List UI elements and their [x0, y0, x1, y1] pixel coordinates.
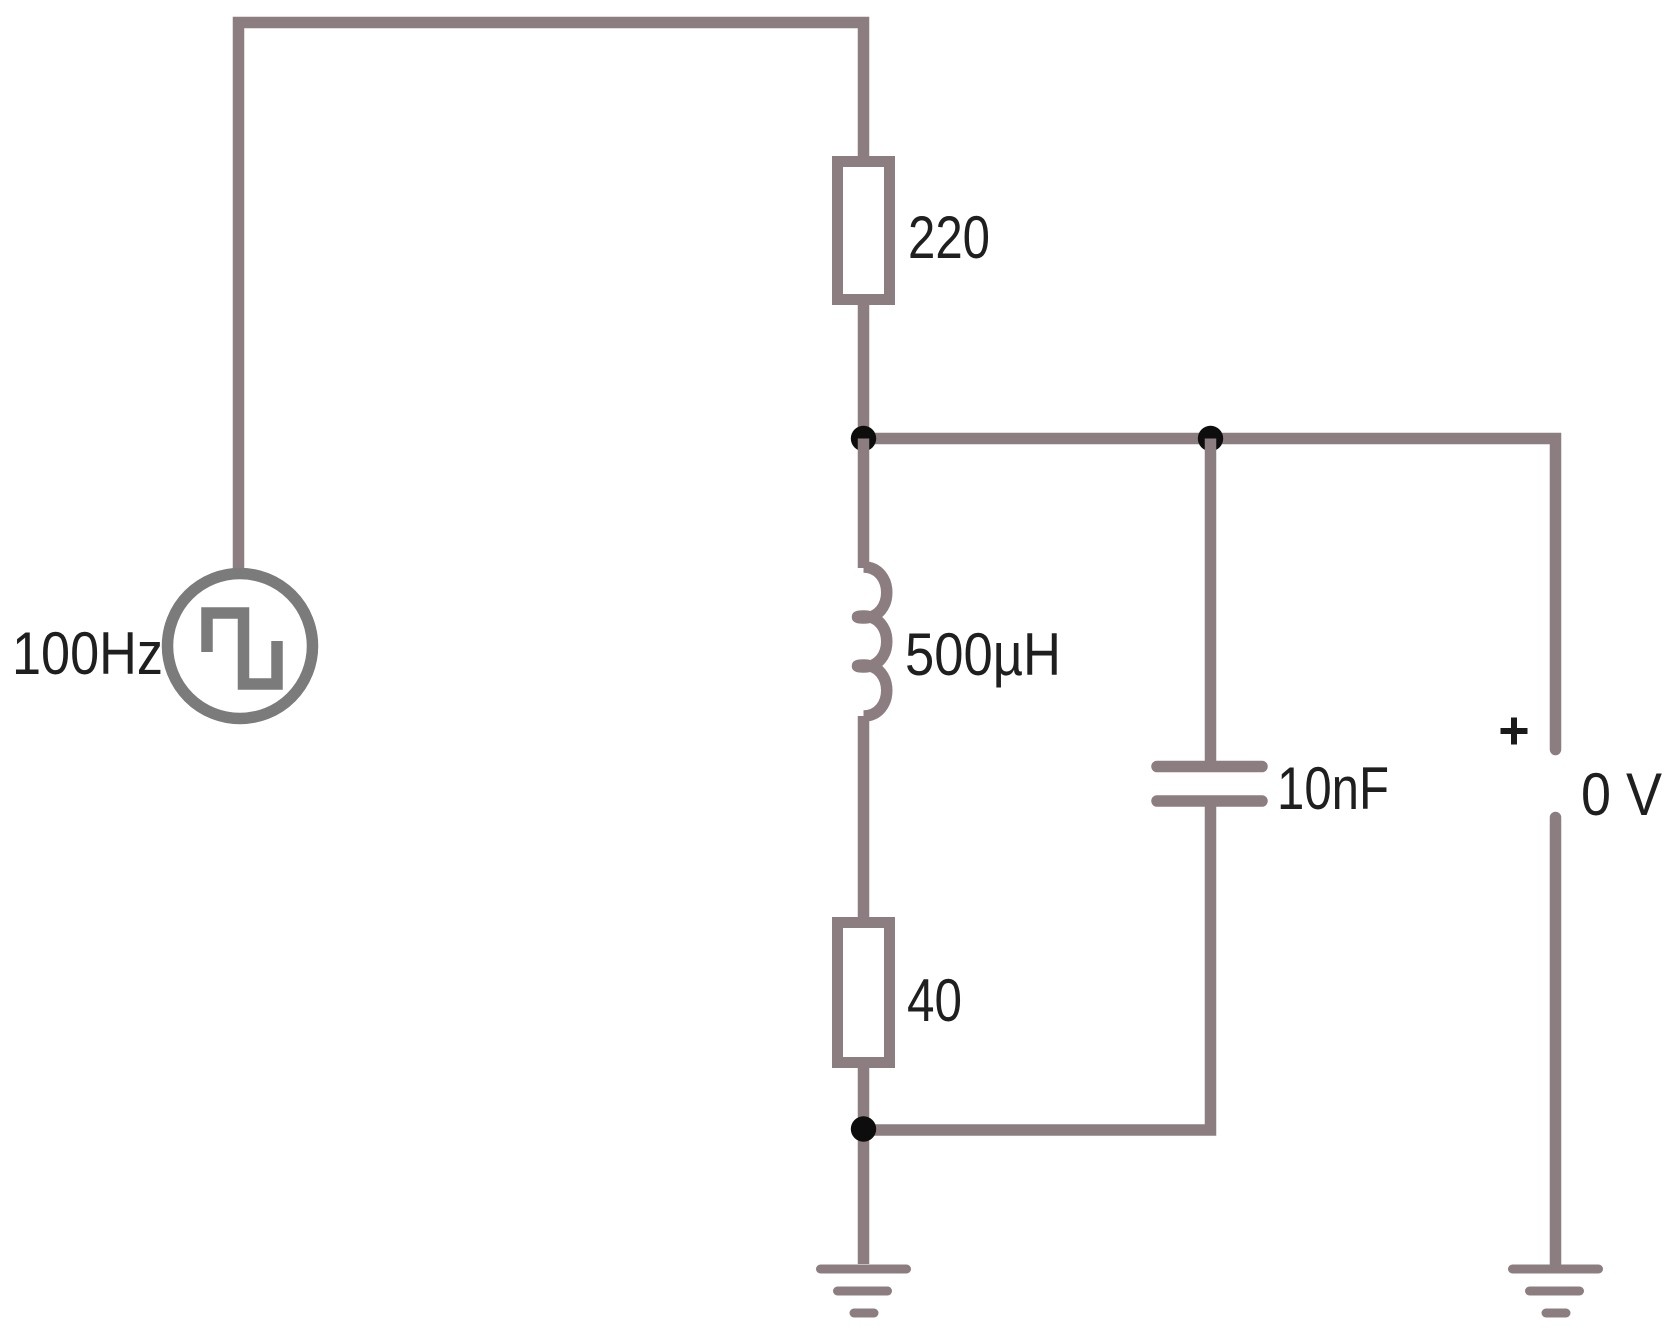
wire R1 bottom to node A	[858, 300, 870, 439]
wire inductor bottom to R2 top	[858, 716, 870, 917]
wire node C down to ground	[858, 1129, 870, 1264]
svg-text:10nF: 10nF	[1277, 755, 1389, 822]
square wave glyph	[207, 613, 277, 684]
wire node A to right corner and down to voltmeter plus	[864, 439, 1556, 750]
resistor R1 220	[838, 162, 890, 300]
inductor L1 coil	[858, 567, 887, 716]
svg-text:100Hz: 100Hz	[12, 620, 163, 687]
resistor R2 40	[838, 923, 890, 1063]
wire voltmeter minus down to ground	[1550, 818, 1562, 1265]
capacitor C1 top plate	[1157, 761, 1262, 773]
wire R2 bottom to node C	[858, 1062, 870, 1130]
ground GND2	[1513, 1269, 1599, 1313]
node A junction dot	[851, 426, 876, 451]
node C junction dot	[851, 1116, 876, 1141]
wire node B down to capacitor top plate	[1205, 439, 1217, 762]
svg-text:40: 40	[907, 967, 962, 1034]
svg-text:0 V: 0 V	[1581, 761, 1662, 828]
wire node A down to inductor top	[858, 439, 870, 569]
wire capacitor bottom plate to bottom corner to node C	[864, 806, 1211, 1130]
wire top loop: source to R1 top	[239, 23, 864, 571]
svg-text:220: 220	[908, 204, 990, 271]
capacitor C1 bottom plate	[1157, 795, 1262, 807]
node B junction dot	[1198, 426, 1223, 451]
square wave source V1	[168, 574, 313, 719]
svg-text:500µH: 500µH	[905, 621, 1061, 688]
ground GND1	[821, 1269, 907, 1313]
plus sign of voltmeter	[1501, 718, 1528, 745]
